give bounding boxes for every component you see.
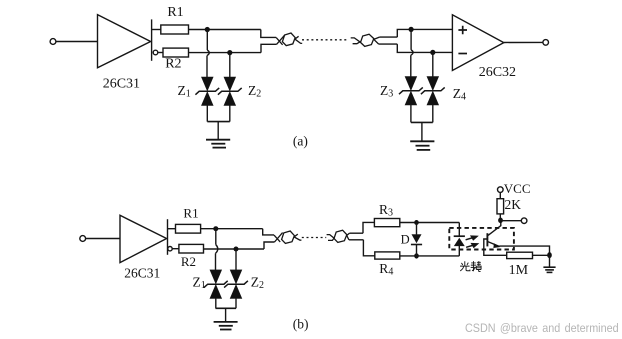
wire R2 node down to Z2 (b) (235, 249, 237, 270)
twist loop left (b) (282, 231, 295, 243)
svg-text:R3: R3 (379, 202, 393, 219)
wire input to driver (a) (56, 41, 98, 43)
input terminal (a) (50, 39, 56, 45)
twist loop left (a) (282, 33, 295, 46)
driver U1 26C31 (a) (98, 15, 151, 68)
wire emitter to ground node (b) (499, 246, 549, 255)
resistor R1 (a) (161, 25, 189, 34)
wire bar to R1 (a) (152, 29, 161, 31)
wire VCC to 2K (b) (499, 192, 501, 198)
TVS Z4 (a) (421, 77, 445, 123)
phototransistor collector (b) (488, 220, 501, 236)
junction dot on plus line (a) (409, 27, 414, 32)
ground stem left (a) (217, 122, 219, 140)
svg-text:R1: R1 (167, 5, 183, 20)
resistor R3 (b) (374, 219, 399, 227)
ground right (a) (410, 141, 434, 150)
wire R1 node down to Z1 with hop (a) (207, 30, 209, 78)
wire bubble to R2 (a) (158, 52, 163, 54)
VCC terminal (b) (498, 187, 504, 193)
wire R1 node down to Z1 with hop (b) (216, 229, 218, 270)
dashed cable run (b) (302, 237, 326, 239)
cable step lower-right (a) (397, 44, 452, 52)
svg-text:R2: R2 (181, 254, 196, 269)
wire minus node down to Z4 (a) (432, 52, 434, 76)
wire bar to R1 (b) (168, 228, 176, 230)
twist loop right (b) (334, 230, 347, 242)
wire 2K to collector node (b) (499, 214, 501, 220)
light arrow 1 (b) (466, 236, 477, 240)
cable step lower-left (b) (264, 242, 275, 249)
wire plus node down to Z3 with hop (a) (411, 29, 413, 76)
ground (b left) (214, 322, 238, 330)
svg-text:1M: 1M (509, 263, 529, 278)
resistor 1M (b) (507, 252, 533, 258)
wire R1 to cable (a) (189, 29, 261, 31)
ground stem right (a) (421, 122, 423, 141)
bottom bar Z3-Z4 (a) (411, 121, 433, 123)
wire output (a) (504, 41, 543, 43)
TVS Z2 (b) (224, 270, 248, 308)
driver U3 26C31 (b) (120, 215, 167, 262)
optocoupler dashed box (b) (449, 228, 514, 250)
wire R2 to cable (a) (189, 52, 262, 54)
resistor 2K (b) (497, 199, 504, 214)
wire top node down to diode D (b) (416, 223, 418, 235)
wire bubble to R2 (b) (172, 248, 179, 250)
wire 1M to ground node (b) (533, 254, 550, 256)
junction dot collector node (b) (498, 218, 503, 224)
cable narrow wires right (a) (379, 37, 398, 44)
svg-text:2K: 2K (505, 197, 522, 212)
junction dot on R1 line (a) (205, 27, 210, 32)
inverting bubble (b) (168, 247, 172, 251)
svg-text:D: D (401, 233, 410, 247)
wire R3 to opto (b) (400, 222, 460, 224)
twist tail crossing right (a) (351, 38, 361, 44)
wire R2 to cable (b) (204, 248, 265, 250)
svg-text:Z2: Z2 (251, 275, 264, 292)
svg-text:R4: R4 (379, 261, 393, 278)
TVS Z1 (b) (204, 270, 228, 308)
svg-text:Z3: Z3 (380, 83, 393, 100)
junction dot on minus line (a) (430, 50, 435, 55)
bottom bar Z1-Z2 (a) (207, 121, 230, 123)
svg-text:26C32: 26C32 (479, 65, 516, 80)
svg-text:(b): (b) (293, 316, 309, 331)
TVS Z1 (a) (195, 77, 219, 122)
junction dot on R4 line (b) (414, 253, 419, 258)
ground stem (b right) (549, 255, 551, 267)
TVS Z2 (a) (218, 77, 242, 122)
output split bar (a) (151, 19, 153, 60)
cable step lower-right (b) (363, 240, 374, 256)
cable step upper-right (b) (363, 222, 374, 233)
diode D (b) (411, 235, 422, 256)
svg-text:R1: R1 (183, 206, 198, 221)
output split bar (b) (167, 219, 169, 255)
twist crossing right (a) (374, 37, 380, 44)
ground (b right) (543, 267, 555, 272)
ground left (a) (206, 140, 230, 148)
light arrow 2 (b) (466, 244, 477, 248)
junction dot on R1 line (b) (213, 226, 218, 231)
cable step upper-left (a) (261, 30, 276, 38)
cable step lower-left (a) (261, 44, 277, 52)
phototransistor emitter with arrow (b) (488, 242, 501, 248)
cable step upper-right (a) (397, 29, 452, 37)
receiver U2 26C32 (a) (452, 15, 503, 71)
TVS Z3 (a) (399, 77, 423, 123)
svg-text:(a): (a) (293, 133, 308, 148)
output terminal (b) (521, 218, 527, 224)
junction dot on R3 line (b) (414, 220, 419, 225)
twist tail crossing left (b) (294, 234, 301, 240)
svg-text:26C31: 26C31 (124, 266, 160, 281)
inverting bubble (a) (153, 50, 158, 55)
bottom bar Z1-Z2 (b) (216, 307, 237, 309)
twist crossing left (a) (276, 35, 285, 45)
resistor R1 (b) (176, 224, 201, 233)
twist tail crossing left (a) (295, 36, 302, 43)
resistor R2 (a) (163, 48, 189, 57)
junction dot on R2 line (b) (234, 247, 239, 252)
wire R4 to LED cathode (b) (400, 255, 460, 257)
svg-text:VCC: VCC (504, 181, 531, 196)
twist tail crossing right (b) (327, 235, 335, 241)
wire collector node to output (b) (501, 220, 522, 222)
svg-text:26C31: 26C31 (103, 77, 140, 92)
opto LED (b) (454, 236, 465, 256)
plus sign (a) (458, 26, 467, 35)
twist crossing right (b) (347, 233, 350, 240)
wire R2 node down to Z2 (a) (229, 53, 231, 78)
input terminal (b) (80, 236, 86, 242)
twist crossing left (b) (274, 233, 283, 242)
twist loop right (a) (361, 34, 374, 46)
svg-text:Z1: Z1 (178, 83, 191, 100)
dashed cable run (a) (302, 39, 347, 41)
svg-text:CSDN @brave and determined: CSDN @brave and determined (465, 321, 619, 335)
cable step upper-left (b) (263, 229, 274, 235)
resistor R2 (b) (179, 244, 204, 253)
cable narrow wires right (b) (349, 233, 364, 240)
base lead to 1M (b) (484, 239, 507, 255)
output terminal (a) (543, 40, 549, 46)
ground stem (b left) (225, 308, 227, 321)
junction dot on R2 line (a) (227, 50, 232, 55)
junction dot at ground node (b) (547, 252, 552, 258)
phototransistor base bar (b) (486, 233, 488, 246)
svg-text:R2: R2 (165, 57, 181, 72)
svg-text:Z4: Z4 (453, 86, 466, 103)
wire R1 to cable (b) (201, 228, 263, 230)
resistor R4 (b) (375, 252, 400, 259)
minus sign (a) (458, 53, 467, 55)
label guang-ou (optocoupler) glyphs (b) (460, 261, 481, 271)
wire input to driver (b) (86, 238, 120, 240)
svg-text:Z2: Z2 (248, 83, 261, 100)
wire into LED anode (b) (458, 223, 460, 237)
svg-text:Z1: Z1 (193, 275, 206, 292)
